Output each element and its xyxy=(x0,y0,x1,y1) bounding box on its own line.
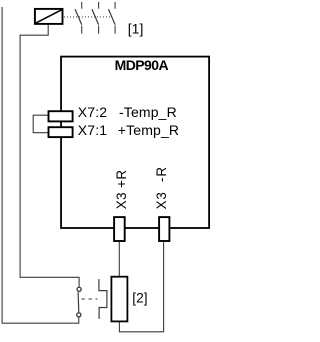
switch contact circle lower xyxy=(77,313,81,317)
terminal X3 -R xyxy=(159,217,169,241)
svg-text:X7:2: X7:2 xyxy=(78,104,107,120)
svg-text:[1]: [1] xyxy=(128,21,144,37)
wire: left return wire from top edge down to lower switch contact xyxy=(2,7,79,323)
switch blade xyxy=(77,292,80,312)
svg-text:MDP90A: MDP90A xyxy=(115,57,169,73)
terminal X3 +R xyxy=(114,217,125,241)
svg-text:[2]: [2] xyxy=(132,290,147,305)
wire: X3 -R terminal down, around to bottom of sensor [2] xyxy=(119,242,163,332)
enclosure box MDP90A xyxy=(61,57,209,228)
sensor body [2] xyxy=(111,277,127,322)
svg-text:X3 -R: X3 -R xyxy=(154,167,169,210)
thermal actuator crank on sensor xyxy=(99,279,107,319)
svg-text:X3 +R: X3 +R xyxy=(114,170,129,210)
svg-text:+Temp_R: +Temp_R xyxy=(118,122,179,138)
wire: relay coil bottom pin down and left, then down to upper switch contact xyxy=(20,25,79,287)
contact 2 (NO) xyxy=(92,2,99,34)
label X7:2 -Temp_R xyxy=(78,104,177,120)
contact 3 (NO) xyxy=(109,2,116,34)
relay coil K1 (box with diagonal) xyxy=(35,9,63,24)
terminal X7:1 xyxy=(49,127,73,137)
label X7:1 +Temp_R xyxy=(78,122,179,138)
mechanical link dashed line from switch to sensor xyxy=(82,298,98,300)
jumper wire between X7:2 and X7:1 xyxy=(33,115,48,133)
contact 1 (NO) xyxy=(75,2,82,34)
svg-text:-Temp_R: -Temp_R xyxy=(119,104,177,120)
terminal X7:2 xyxy=(49,111,73,121)
switch contact circle upper xyxy=(77,287,81,291)
wire: X3 +R terminal down to sensor [2] xyxy=(118,242,120,276)
mechanical link dotted line from coil to contacts xyxy=(64,16,112,18)
svg-text:X7:1: X7:1 xyxy=(78,122,107,138)
